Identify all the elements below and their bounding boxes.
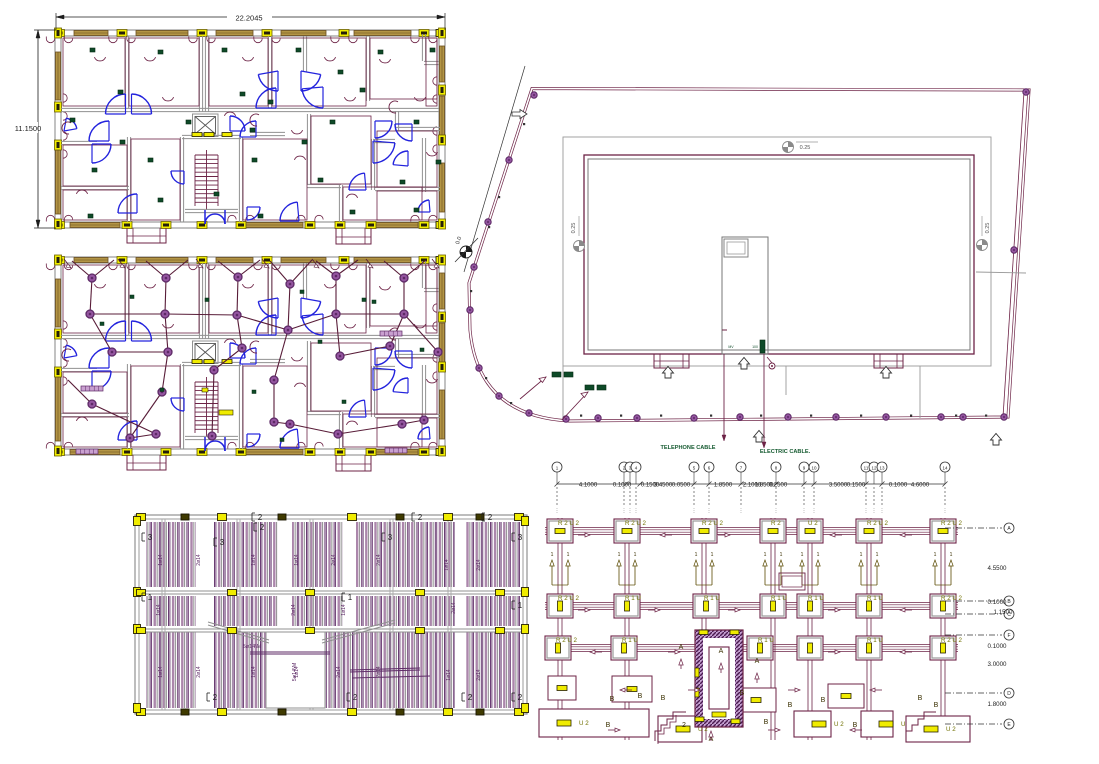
svg-text:1: 1 [876, 552, 879, 558]
svg-text:2: 2 [418, 513, 423, 522]
svg-text:R 1 U: R 1 U [771, 595, 787, 602]
svg-text:2: 2 [682, 722, 686, 729]
svg-text:3.0000: 3.0000 [988, 661, 1007, 668]
svg-text:4.1000: 4.1000 [579, 483, 598, 489]
svg-text:3.5000: 3.5000 [829, 483, 848, 489]
svg-text:R 1 U: R 1 U [867, 595, 883, 602]
svg-text:⋮: ⋮ [864, 508, 869, 514]
svg-text:⋮: ⋮ [880, 508, 885, 514]
svg-text:R 1 U: R 1 U [808, 595, 824, 602]
svg-text:1ø14: 1ø14 [251, 666, 257, 678]
svg-text:0.1000: 0.1000 [988, 599, 1007, 606]
svg-text:11.1500: 11.1500 [15, 124, 42, 133]
svg-text:1: 1 [801, 552, 804, 558]
svg-text:2: 2 [353, 693, 358, 702]
svg-text:R 1 U: R 1 U [867, 637, 883, 644]
svg-text:B: B [788, 702, 793, 709]
svg-text:R 2 U 2: R 2 U 2 [867, 520, 889, 527]
svg-text:3: 3 [220, 538, 225, 547]
svg-text:B: B [918, 695, 923, 702]
svg-text:22.2045: 22.2045 [235, 14, 262, 23]
svg-text:13: 13 [879, 466, 885, 471]
svg-text:10: 10 [811, 466, 817, 471]
svg-text:B: B [821, 697, 826, 704]
svg-text:100: 100 [752, 345, 758, 349]
svg-text:11: 11 [864, 466, 869, 471]
svg-text:R 1 U: R 1 U [622, 637, 638, 644]
svg-text:R 2 U 2: R 2 U 2 [941, 637, 963, 644]
svg-text:1: 1 [934, 552, 937, 558]
svg-text:R 2 U 2: R 2 U 2 [558, 595, 580, 602]
svg-text:D: D [1007, 691, 1011, 697]
svg-text:U 2: U 2 [808, 520, 818, 527]
svg-text:R 2 U 2: R 2 U 2 [625, 520, 647, 527]
svg-text:⋮: ⋮ [774, 508, 779, 514]
svg-text:0.1000: 0.1000 [613, 483, 632, 489]
svg-text:1ø14: 1ø14 [444, 559, 450, 571]
svg-text:U 2: U 2 [579, 720, 589, 727]
svg-text:1: 1 [518, 601, 523, 610]
svg-text:U 2: U 2 [834, 721, 844, 728]
svg-text:A: A [679, 644, 684, 651]
svg-text:B: B [740, 690, 745, 697]
svg-text:4.5500: 4.5500 [988, 565, 1007, 572]
svg-text:R 1 U: R 1 U [625, 595, 641, 602]
svg-text:2ø14: 2ø14 [376, 554, 382, 566]
svg-text:3.4500: 3.4500 [654, 483, 673, 489]
svg-text:⋮: ⋮ [812, 508, 817, 514]
svg-text:1ø14: 1ø14 [446, 669, 452, 681]
svg-text:1: 1 [817, 552, 820, 558]
svg-text:⋮: ⋮ [707, 508, 712, 514]
svg-text:B: B [661, 695, 666, 702]
svg-text:MV: MV [728, 345, 734, 349]
svg-text:2ø14: 2ø14 [451, 602, 457, 614]
svg-text:1ø14: 1ø14 [251, 554, 257, 566]
svg-text:0.1000: 0.1000 [889, 483, 908, 489]
svg-text:1ø14: 1ø14 [294, 666, 300, 678]
svg-text:14: 14 [942, 466, 948, 471]
svg-text:2: 2 [213, 693, 218, 702]
svg-text:B: B [638, 693, 643, 700]
svg-text:B: B [934, 702, 939, 709]
svg-text:2ø14: 2ø14 [376, 666, 382, 678]
svg-text:U 2: U 2 [946, 726, 956, 733]
svg-text:1.1500: 1.1500 [994, 609, 1013, 616]
svg-text:B: B [764, 719, 769, 726]
svg-text:1: 1 [780, 552, 783, 558]
svg-text:2: 2 [518, 693, 523, 702]
svg-text:⋮: ⋮ [555, 508, 560, 514]
svg-text:3: 3 [388, 533, 393, 542]
svg-text:B: B [610, 696, 615, 703]
svg-text:TELEPHONE CABLE: TELEPHONE CABLE [660, 445, 715, 451]
svg-text:5ø14\M: 5ø14\M [243, 644, 262, 650]
svg-text:4.6000: 4.6000 [911, 483, 930, 489]
svg-text:2ø14: 2ø14 [331, 554, 337, 566]
svg-text:R 1 U: R 1 U [758, 637, 774, 644]
svg-text:⋮: ⋮ [622, 508, 627, 514]
svg-text:0.2500: 0.2500 [769, 483, 788, 489]
svg-text:R 2 U 2: R 2 U 2 [702, 520, 724, 527]
svg-text:⋮: ⋮ [943, 508, 948, 514]
svg-text:1: 1 [148, 593, 153, 602]
svg-text:1: 1 [618, 552, 621, 558]
svg-text:0.1000: 0.1000 [988, 643, 1007, 650]
svg-text:R 2: R 2 [771, 520, 781, 527]
svg-text:3: 3 [148, 533, 153, 542]
svg-text:0.25: 0.25 [571, 223, 577, 234]
svg-text:2ø14: 2ø14 [196, 666, 202, 678]
svg-text:12: 12 [871, 466, 877, 471]
svg-text:B: B [606, 722, 611, 729]
svg-text:1ø14: 1ø14 [341, 604, 347, 616]
svg-text:1ø14: 1ø14 [156, 604, 162, 616]
svg-text:1: 1 [634, 552, 637, 558]
svg-text:1: 1 [764, 552, 767, 558]
svg-text:2ø14: 2ø14 [476, 559, 482, 571]
svg-text:3: 3 [518, 533, 523, 542]
svg-text:0.0500: 0.0500 [672, 483, 691, 489]
svg-text:2: 2 [258, 513, 263, 522]
svg-text:0.25: 0.25 [800, 145, 811, 151]
svg-text:⋮: ⋮ [802, 508, 807, 514]
svg-text:ELECTRIC CABLE.: ELECTRIC CABLE. [760, 449, 811, 455]
svg-text:R 2 U 2: R 2 U 2 [941, 520, 963, 527]
svg-text:2: 2 [260, 523, 265, 532]
svg-text:2ø14: 2ø14 [476, 669, 482, 681]
svg-text:2ø14: 2ø14 [196, 554, 202, 566]
svg-text:⋮: ⋮ [872, 508, 877, 514]
svg-text:1ø14: 1ø14 [158, 554, 164, 566]
svg-text:0.1500: 0.1500 [847, 483, 866, 489]
svg-text:R 2 U 2: R 2 U 2 [558, 520, 580, 527]
svg-text:1: 1 [860, 552, 863, 558]
svg-text:⋮: ⋮ [692, 508, 697, 514]
svg-text:⋮: ⋮ [634, 508, 639, 514]
svg-text:1: 1 [551, 552, 554, 558]
svg-text:1ø14: 1ø14 [294, 554, 300, 566]
svg-text:1: 1 [711, 552, 714, 558]
svg-text:1.8500: 1.8500 [714, 483, 733, 489]
svg-text:⋮: ⋮ [628, 508, 633, 514]
svg-text:2ø14: 2ø14 [291, 604, 297, 616]
svg-text:⋮: ⋮ [739, 508, 744, 514]
svg-text:1: 1 [950, 552, 953, 558]
svg-text:A: A [755, 658, 760, 665]
svg-text:1: 1 [348, 593, 353, 602]
svg-text:1: 1 [567, 552, 570, 558]
svg-text:2ø14: 2ø14 [336, 666, 342, 678]
svg-text:0.25: 0.25 [985, 223, 991, 234]
svg-text:2: 2 [488, 513, 493, 522]
svg-text:2: 2 [468, 693, 473, 702]
svg-text:1: 1 [695, 552, 698, 558]
svg-text:R 2 U 2: R 2 U 2 [556, 637, 578, 644]
svg-text:R 1 U: R 1 U [704, 595, 720, 602]
svg-text:1.8000: 1.8000 [988, 701, 1007, 708]
svg-text:F: F [1007, 633, 1010, 639]
svg-text:1ø14: 1ø14 [158, 666, 164, 678]
svg-text:A: A [719, 648, 724, 655]
